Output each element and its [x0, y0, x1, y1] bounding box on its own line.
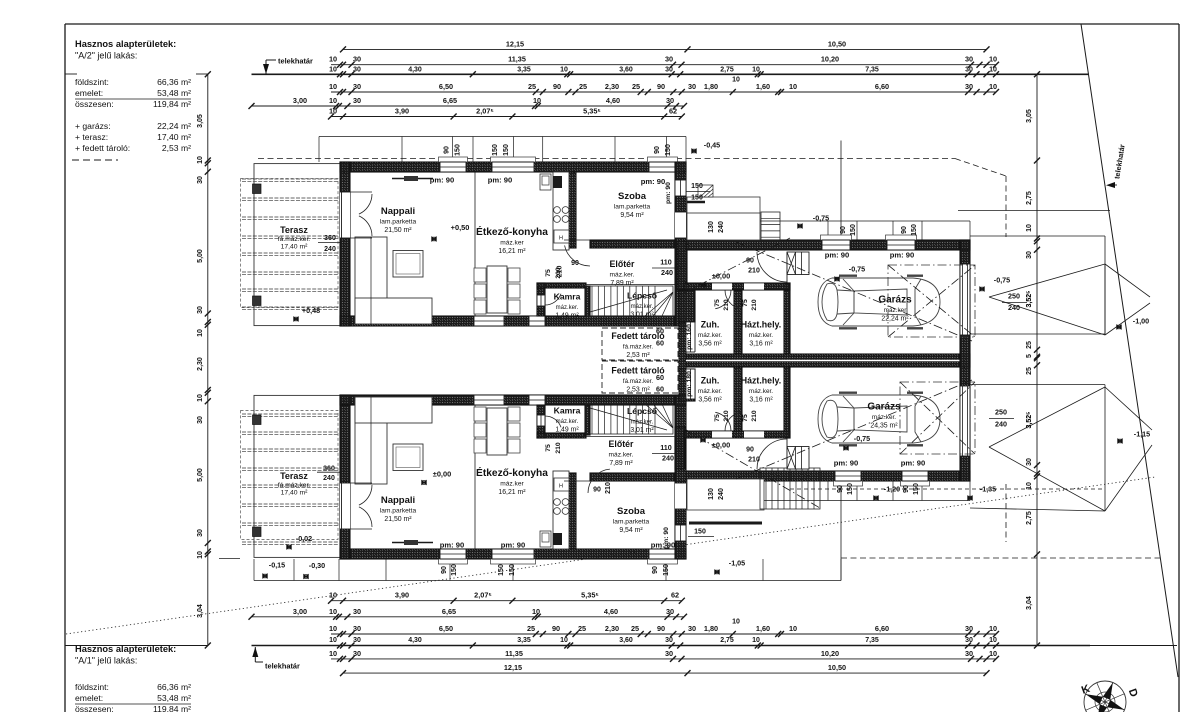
svg-text:30: 30 [353, 82, 361, 91]
svg-text:30: 30 [965, 637, 973, 644]
svg-text:6,65: 6,65 [442, 607, 456, 616]
svg-text:360: 360 [324, 235, 336, 242]
svg-text:62: 62 [669, 107, 677, 116]
svg-text:máz.ker.: máz.ker. [872, 414, 896, 421]
svg-text:90: 90 [840, 226, 847, 234]
svg-text:7,35: 7,35 [865, 66, 879, 73]
svg-text:150: 150 [455, 144, 462, 156]
svg-text:fá.máz.ker.: fá.máz.ker. [623, 344, 654, 351]
svg-text:Terasz: Terasz [280, 471, 308, 481]
svg-text:90: 90 [593, 487, 601, 494]
svg-text:összesen:: összesen: [75, 99, 114, 109]
svg-text:30: 30 [353, 637, 361, 644]
svg-text:pm: 90: pm: 90 [901, 459, 925, 468]
svg-text:150: 150 [663, 564, 670, 576]
svg-text:pm: 90: pm: 90 [488, 176, 512, 185]
svg-text:máz.ker.: máz.ker. [609, 452, 634, 459]
svg-text:150: 150 [503, 144, 510, 156]
svg-text:10: 10 [329, 82, 337, 91]
svg-text:22,24 m²: 22,24 m² [157, 121, 191, 131]
svg-text:±0,00: ±0,00 [433, 470, 451, 479]
svg-text:3,04: 3,04 [1026, 596, 1033, 610]
svg-text:240: 240 [324, 246, 336, 253]
svg-text:11,35: 11,35 [508, 55, 526, 64]
svg-text:75: 75 [545, 269, 552, 277]
svg-text:150: 150 [691, 183, 703, 190]
svg-text:10: 10 [197, 394, 204, 402]
svg-text:240: 240 [718, 221, 725, 233]
svg-text:±0,00: ±0,00 [712, 272, 730, 281]
svg-text:Nappali: Nappali [381, 206, 415, 217]
svg-text:±0,00: ±0,00 [712, 441, 730, 450]
svg-text:2,07⁵: 2,07⁵ [476, 107, 494, 116]
svg-text:6,50: 6,50 [439, 624, 453, 633]
svg-text:10: 10 [989, 649, 997, 658]
svg-text:25: 25 [1026, 367, 1033, 375]
svg-text:10: 10 [989, 637, 997, 644]
svg-text:119,84 m²: 119,84 m² [153, 704, 191, 712]
svg-text:lam.parketta: lam.parketta [380, 508, 417, 515]
svg-text:H: H [559, 236, 563, 242]
svg-text:+ garázs:: + garázs: [75, 121, 111, 131]
svg-text:lam.parketta: lam.parketta [380, 219, 417, 226]
svg-text:90: 90 [654, 146, 661, 154]
svg-text:150: 150 [691, 195, 703, 202]
svg-text:240: 240 [323, 475, 335, 482]
svg-text:130: 130 [708, 221, 715, 233]
svg-text:10: 10 [329, 607, 337, 616]
svg-text:90: 90 [657, 82, 665, 91]
svg-text:fá.máz.ker.: fá.máz.ker. [623, 378, 654, 385]
svg-text:30: 30 [965, 649, 973, 658]
svg-text:Szoba: Szoba [617, 506, 646, 517]
svg-text:telekhatár: telekhatár [278, 57, 313, 66]
svg-text:+0,48: +0,48 [302, 306, 320, 315]
svg-text:10: 10 [329, 55, 337, 64]
svg-text:90: 90 [657, 624, 665, 633]
svg-text:10: 10 [560, 637, 568, 644]
svg-text:2,75: 2,75 [1026, 191, 1033, 205]
svg-text:240: 240 [1008, 303, 1020, 312]
svg-text:6,50: 6,50 [439, 82, 453, 91]
svg-text:10: 10 [989, 66, 997, 73]
svg-text:pm: 90: pm: 90 [825, 251, 849, 260]
svg-text:2,30: 2,30 [605, 82, 619, 91]
svg-text:1,60: 1,60 [756, 82, 770, 91]
svg-text:17,40 m²: 17,40 m² [157, 132, 191, 142]
svg-text:10: 10 [329, 624, 337, 633]
svg-text:1,80: 1,80 [704, 82, 718, 91]
svg-text:150: 150 [850, 224, 857, 236]
svg-text:30: 30 [666, 607, 674, 616]
svg-text:máz.ker: máz.ker [884, 307, 908, 314]
svg-text:Lépcső: Lépcső [627, 291, 657, 301]
svg-text:30: 30 [965, 624, 973, 633]
svg-text:90: 90 [837, 485, 844, 493]
svg-text:240: 240 [718, 488, 725, 500]
svg-text:210: 210 [748, 457, 760, 464]
svg-text:4,30: 4,30 [408, 637, 422, 644]
svg-text:10: 10 [732, 619, 740, 626]
svg-text:10: 10 [1026, 224, 1033, 232]
svg-text:30: 30 [666, 96, 674, 105]
svg-text:25: 25 [527, 624, 535, 633]
svg-text:-0,75: -0,75 [854, 434, 870, 443]
svg-text:máz.ker.: máz.ker. [749, 388, 773, 395]
svg-text:66,36 m²: 66,36 m² [157, 77, 191, 87]
svg-text:30: 30 [965, 55, 973, 64]
svg-text:150: 150 [498, 564, 505, 576]
svg-text:17,40 m²: 17,40 m² [281, 490, 309, 497]
svg-text:2,30: 2,30 [605, 624, 619, 633]
svg-text:Házt.hely.: Házt.hely. [741, 320, 781, 330]
svg-text:3,16 m²: 3,16 m² [749, 341, 773, 348]
svg-text:25: 25 [528, 82, 536, 91]
svg-text:10,50: 10,50 [828, 39, 846, 48]
svg-text:1,49 m²: 1,49 m² [555, 427, 579, 434]
svg-text:30: 30 [353, 55, 361, 64]
svg-text:-0,15: -0,15 [269, 561, 285, 570]
svg-text:2,07⁵: 2,07⁵ [474, 591, 492, 600]
svg-text:3,52⁵: 3,52⁵ [1026, 412, 1033, 429]
svg-text:60: 60 [656, 327, 664, 336]
svg-text:Étkező-konyha: Étkező-konyha [476, 225, 548, 238]
svg-text:1,49 m²: 1,49 m² [555, 313, 579, 320]
svg-text:30: 30 [353, 649, 361, 658]
svg-text:+ terasz:: + terasz: [75, 132, 108, 142]
svg-text:3,90: 3,90 [395, 107, 409, 116]
svg-text:-0,45: -0,45 [704, 141, 720, 150]
svg-text:2,75: 2,75 [1026, 511, 1033, 525]
svg-text:10,20: 10,20 [821, 649, 839, 658]
svg-text:pm: 90: pm: 90 [890, 251, 914, 260]
svg-text:3,01 m²: 3,01 m² [630, 312, 654, 319]
svg-text:9,54 m²: 9,54 m² [619, 527, 643, 534]
svg-text:Előtér: Előtér [609, 439, 635, 449]
svg-text:210: 210 [751, 299, 758, 311]
svg-text:Zuh.: Zuh. [701, 320, 720, 330]
svg-text:110: 110 [660, 443, 672, 452]
svg-text:10: 10 [989, 55, 997, 64]
svg-text:lam.parketta: lam.parketta [613, 519, 650, 526]
svg-text:máz.ker.: máz.ker. [698, 332, 722, 339]
svg-text:máz.ker.: máz.ker. [631, 304, 654, 310]
svg-text:90: 90 [652, 566, 659, 574]
svg-text:Kamra: Kamra [554, 406, 581, 416]
svg-text:2,53 m²: 2,53 m² [626, 387, 650, 394]
svg-text:30: 30 [665, 649, 673, 658]
svg-text:Terasz: Terasz [280, 225, 308, 235]
svg-text:pm: 90: pm: 90 [440, 541, 464, 550]
svg-text:10: 10 [789, 624, 797, 633]
svg-text:földszint:: földszint: [75, 682, 109, 692]
svg-text:360: 360 [323, 466, 335, 473]
svg-text:60: 60 [656, 339, 664, 348]
svg-text:6,60: 6,60 [875, 82, 889, 91]
svg-text:3,00: 3,00 [293, 607, 307, 616]
svg-text:150: 150 [913, 483, 920, 495]
svg-text:Előtér: Előtér [610, 259, 636, 269]
svg-text:3,05: 3,05 [1026, 109, 1033, 123]
svg-text:62: 62 [671, 591, 679, 600]
svg-text:3,56 m²: 3,56 m² [698, 397, 722, 404]
svg-text:10: 10 [329, 649, 337, 658]
svg-text:-0,30: -0,30 [309, 561, 325, 570]
svg-text:240: 240 [661, 268, 673, 277]
svg-text:25: 25 [578, 624, 586, 633]
svg-text:máz.ker.: máz.ker. [610, 272, 635, 279]
svg-text:5,00: 5,00 [197, 468, 204, 482]
svg-text:210: 210 [723, 299, 730, 311]
svg-text:30: 30 [665, 66, 673, 73]
svg-text:+0,50: +0,50 [451, 223, 470, 232]
svg-text:75: 75 [742, 414, 749, 422]
svg-text:30: 30 [353, 624, 361, 633]
svg-text:10: 10 [329, 96, 337, 105]
svg-text:66,36 m²: 66,36 m² [157, 682, 191, 692]
svg-text:24,35 m²: 24,35 m² [870, 423, 898, 430]
svg-text:5,35⁵: 5,35⁵ [583, 107, 601, 116]
svg-text:-1,00: -1,00 [1133, 317, 1149, 326]
svg-text:210: 210 [605, 482, 612, 494]
svg-text:pm: 90: pm: 90 [834, 459, 858, 468]
svg-text:10: 10 [752, 66, 760, 73]
svg-text:2,75: 2,75 [720, 66, 734, 73]
svg-text:53,48 m²: 53,48 m² [157, 693, 191, 703]
svg-text:210: 210 [748, 268, 760, 275]
svg-text:119,84 m²: 119,84 m² [153, 99, 191, 109]
svg-text:75: 75 [714, 299, 721, 307]
svg-text:3,90: 3,90 [395, 591, 409, 600]
svg-text:máz.ker: máz.ker [500, 240, 524, 247]
svg-text:5,35⁵: 5,35⁵ [581, 591, 599, 600]
svg-text:210: 210 [555, 267, 562, 279]
svg-text:-1,15: -1,15 [1134, 430, 1150, 439]
svg-text:21,50 m²: 21,50 m² [384, 227, 412, 234]
svg-text:2,30: 2,30 [197, 357, 204, 371]
svg-text:150: 150 [509, 564, 516, 576]
svg-text:-1,05: -1,05 [729, 559, 745, 568]
svg-text:17,40 m²: 17,40 m² [281, 244, 309, 251]
svg-text:2,53 m²: 2,53 m² [626, 352, 650, 359]
svg-text:30: 30 [197, 176, 204, 184]
svg-text:összesen:: összesen: [75, 704, 114, 712]
svg-text:2,75: 2,75 [720, 637, 734, 644]
svg-text:4,60: 4,60 [604, 607, 618, 616]
svg-text:pm: 90: pm: 90 [501, 541, 525, 550]
svg-text:75: 75 [714, 414, 721, 422]
svg-text:30: 30 [688, 624, 696, 633]
svg-text:30: 30 [197, 529, 204, 537]
svg-text:12,15: 12,15 [506, 39, 524, 48]
svg-text:210: 210 [723, 410, 730, 422]
svg-text:máz.ker.: máz.ker. [698, 388, 722, 395]
svg-text:110: 110 [660, 258, 672, 267]
svg-text:máz.ker.: máz.ker. [556, 305, 579, 311]
svg-text:4,30: 4,30 [408, 66, 422, 73]
svg-text:30: 30 [353, 607, 361, 616]
svg-text:10: 10 [329, 66, 337, 73]
svg-text:10: 10 [789, 82, 797, 91]
svg-text:30: 30 [688, 82, 696, 91]
svg-text:30: 30 [665, 637, 673, 644]
svg-text:10,50: 10,50 [828, 663, 846, 672]
svg-text:10: 10 [197, 551, 204, 559]
svg-text:Nappali: Nappali [381, 495, 415, 506]
svg-text:75: 75 [545, 444, 552, 452]
svg-text:Házt.hely.: Házt.hely. [741, 376, 781, 386]
svg-text:3,56 m²: 3,56 m² [698, 341, 722, 348]
svg-text:3,52⁵: 3,52⁵ [1026, 291, 1033, 308]
svg-text:10: 10 [329, 637, 337, 644]
svg-text:5,00: 5,00 [197, 249, 204, 263]
svg-text:90: 90 [552, 624, 560, 633]
svg-text:150: 150 [492, 144, 499, 156]
svg-text:-0,02: -0,02 [296, 534, 312, 543]
svg-text:pm: 90: pm: 90 [663, 527, 670, 549]
svg-text:90: 90 [444, 146, 451, 154]
svg-text:1,80: 1,80 [704, 624, 718, 633]
svg-text:240: 240 [995, 420, 1007, 429]
svg-text:3,04: 3,04 [197, 604, 204, 618]
svg-text:emelet:: emelet: [75, 693, 103, 703]
svg-text:30: 30 [353, 96, 361, 105]
svg-text:12,15: 12,15 [504, 663, 522, 672]
svg-text:10: 10 [732, 77, 740, 84]
svg-text:30: 30 [965, 66, 973, 73]
svg-text:pm: 90: pm: 90 [641, 177, 665, 186]
svg-text:30: 30 [197, 306, 204, 314]
svg-text:10: 10 [329, 107, 337, 116]
svg-text:-1,35: -1,35 [980, 485, 996, 494]
svg-text:90: 90 [571, 260, 579, 267]
svg-text:21,50 m²: 21,50 m² [384, 516, 412, 523]
svg-text:90: 90 [903, 485, 910, 493]
svg-text:pm: 160: pm: 160 [686, 324, 693, 350]
svg-text:16,21 m²: 16,21 m² [498, 489, 526, 496]
svg-text:10: 10 [532, 607, 540, 616]
svg-text:9,54 m²: 9,54 m² [620, 212, 644, 219]
svg-text:fá.máz.ker.: fá.máz.ker. [278, 236, 310, 243]
svg-text:250: 250 [1008, 292, 1020, 301]
svg-text:150: 150 [847, 483, 854, 495]
svg-text:Hasznos alapterületek:: Hasznos alapterületek: [75, 39, 176, 49]
svg-text:3,60: 3,60 [619, 66, 633, 73]
svg-text:60: 60 [656, 373, 664, 382]
svg-text:5: 5 [1026, 354, 1033, 358]
svg-text:Hasznos alapterületek:: Hasznos alapterületek: [75, 644, 176, 654]
svg-text:7,35: 7,35 [865, 637, 879, 644]
svg-text:90: 90 [746, 258, 754, 265]
svg-text:pm: 90: pm: 90 [430, 176, 454, 185]
svg-text:7,89 m²: 7,89 m² [610, 280, 634, 287]
svg-text:7,89 m²: 7,89 m² [609, 460, 633, 467]
svg-text:30: 30 [965, 82, 973, 91]
svg-text:fá.máz.ker.: fá.máz.ker. [278, 482, 310, 489]
svg-text:210: 210 [751, 410, 758, 422]
svg-text:10: 10 [197, 156, 204, 164]
svg-text:máz.ker.: máz.ker. [749, 332, 773, 339]
svg-text:250: 250 [995, 408, 1007, 417]
svg-text:-0,75: -0,75 [813, 214, 829, 223]
svg-text:240: 240 [662, 454, 674, 463]
svg-text:3,35: 3,35 [517, 66, 531, 73]
svg-text:Zuh.: Zuh. [701, 376, 720, 386]
svg-text:90: 90 [901, 226, 908, 234]
svg-text:53,48 m²: 53,48 m² [157, 88, 191, 98]
svg-text:11,35: 11,35 [505, 649, 523, 658]
svg-text:90: 90 [746, 447, 754, 454]
svg-text:150: 150 [911, 224, 918, 236]
svg-text:10: 10 [197, 329, 204, 337]
svg-text:10: 10 [329, 591, 337, 600]
svg-text:"A/2" jelű lakás:: "A/2" jelű lakás: [75, 51, 137, 61]
svg-text:pm: 90: pm: 90 [665, 182, 672, 204]
svg-text:2,53 m²: 2,53 m² [162, 143, 191, 153]
svg-text:-0,75: -0,75 [994, 276, 1010, 285]
svg-text:máz.ker: máz.ker [500, 481, 524, 488]
svg-text:6,60: 6,60 [875, 624, 889, 633]
svg-text:10,20: 10,20 [821, 55, 839, 64]
svg-text:130: 130 [708, 488, 715, 500]
svg-text:90: 90 [553, 82, 561, 91]
svg-text:lam.parketta: lam.parketta [614, 204, 651, 211]
svg-text:3,16 m²: 3,16 m² [749, 397, 773, 404]
svg-text:pm: 180: pm: 180 [686, 371, 693, 397]
svg-text:Szoba: Szoba [618, 191, 647, 202]
svg-text:150: 150 [451, 564, 458, 576]
svg-text:25: 25 [632, 82, 640, 91]
svg-text:3,01 m²: 3,01 m² [630, 427, 654, 434]
svg-text:10: 10 [752, 637, 760, 644]
svg-text:10: 10 [533, 96, 541, 105]
svg-text:földszint:: földszint: [75, 77, 109, 87]
svg-text:"A/1" jelű lakás:: "A/1" jelű lakás: [75, 656, 137, 666]
svg-text:30: 30 [353, 66, 361, 73]
svg-text:22,24 m²: 22,24 m² [881, 316, 909, 323]
svg-text:30: 30 [1026, 251, 1033, 259]
svg-text:210: 210 [555, 442, 562, 454]
svg-text:75: 75 [742, 299, 749, 307]
svg-text:emelet:: emelet: [75, 88, 103, 98]
svg-text:4,60: 4,60 [606, 96, 620, 105]
svg-text:25: 25 [1026, 341, 1033, 349]
svg-text:Garázs: Garázs [878, 295, 912, 306]
svg-text:3,60: 3,60 [619, 637, 633, 644]
svg-text:-0,75: -0,75 [849, 265, 865, 274]
svg-text:3,05: 3,05 [197, 114, 204, 128]
svg-text:1,60: 1,60 [756, 624, 770, 633]
svg-text:10: 10 [989, 624, 997, 633]
svg-text:3,00: 3,00 [293, 96, 307, 105]
svg-text:150: 150 [694, 529, 706, 536]
svg-text:H: H [559, 484, 563, 490]
svg-text:Kamra: Kamra [554, 292, 581, 302]
svg-text:máz.ker.: máz.ker. [556, 419, 579, 425]
svg-text:30: 30 [665, 55, 673, 64]
svg-text:30: 30 [1026, 458, 1033, 466]
svg-text:6,65: 6,65 [443, 96, 457, 105]
svg-text:telekhatár: telekhatár [265, 662, 300, 671]
svg-text:10: 10 [989, 82, 997, 91]
svg-text:25: 25 [579, 82, 587, 91]
svg-text:10: 10 [560, 66, 568, 73]
svg-text:Étkező-konyha: Étkező-konyha [476, 466, 548, 479]
svg-text:3,35: 3,35 [517, 637, 531, 644]
svg-text:90: 90 [441, 566, 448, 574]
svg-text:Lépcső: Lépcső [627, 406, 657, 416]
svg-text:30: 30 [197, 416, 204, 424]
